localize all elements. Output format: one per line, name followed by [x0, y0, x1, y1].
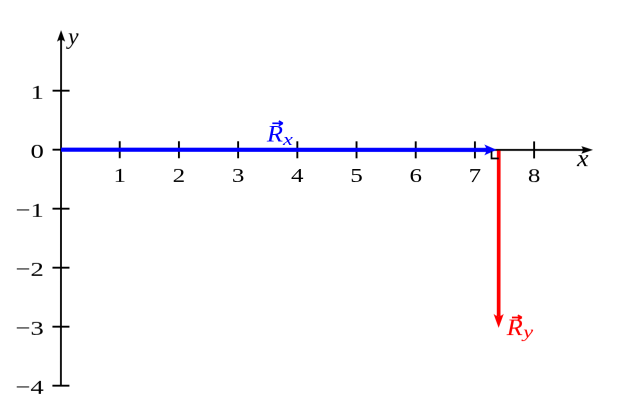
svg-text:x: x [282, 130, 293, 149]
vector Ry (red, from (7.4,0) down to (7.4,-3)) [494, 151, 504, 328]
svg-text:8: 8 [528, 164, 541, 186]
svg-text:R: R [266, 122, 283, 147]
y-axis tick 1 [53, 90, 70, 92]
svg-text:−3: −3 [15, 317, 43, 339]
x-axis [61, 146, 593, 154]
x-axis tick 8 [533, 141, 535, 158]
y-axis tick -3 [52, 326, 69, 328]
svg-text:2: 2 [173, 164, 186, 186]
x-axis tick 2 [178, 141, 180, 158]
y-axis tick -2 [52, 267, 69, 269]
vector Rx (blue, along x-axis from origin to x=7.35) [61, 144, 497, 155]
label Ry (red vector name) [506, 315, 534, 342]
svg-text:1: 1 [31, 81, 44, 103]
svg-text:6: 6 [409, 164, 422, 186]
x-axis tick 6 [415, 141, 417, 158]
y-axis tick -4 [52, 385, 69, 387]
right-angle mark at corner [492, 151, 499, 158]
label Rx (blue vector name) [266, 121, 293, 149]
x-axis tick 1 [119, 141, 121, 158]
x-axis tick 3 [237, 141, 239, 158]
y-axis tick 0 [53, 149, 70, 151]
svg-text:y: y [66, 24, 79, 50]
y-axis tick -1 [53, 208, 70, 210]
svg-text:−2: −2 [15, 258, 43, 280]
svg-text:−4: −4 [15, 376, 43, 398]
svg-text:5: 5 [350, 164, 363, 186]
svg-text:R: R [506, 316, 523, 341]
x-axis tick 7 [474, 141, 476, 158]
svg-text:0: 0 [30, 140, 43, 162]
svg-text:1: 1 [113, 164, 126, 186]
svg-text:y: y [521, 323, 533, 342]
svg-text:7: 7 [469, 164, 482, 186]
y-axis [57, 30, 65, 386]
x-axis tick 5 [356, 141, 358, 158]
x-axis tick 4 [296, 141, 298, 158]
svg-text:3: 3 [232, 164, 245, 186]
svg-text:−1: −1 [15, 199, 43, 221]
svg-text:4: 4 [291, 164, 304, 186]
svg-text:x: x [576, 146, 589, 172]
